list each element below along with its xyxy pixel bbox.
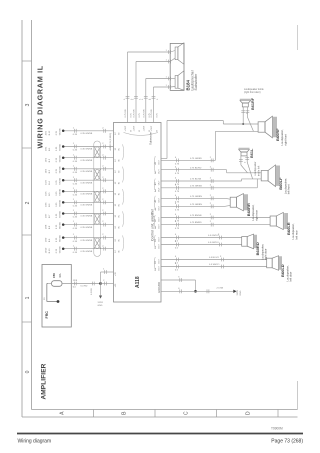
svg-text:B60LD: B60LD <box>280 264 285 277</box>
terminal 30 dot inside FRC <box>57 300 60 303</box>
svg-text:T9900M: T9900M <box>271 427 283 431</box>
svg-text:2: 2 <box>25 201 31 204</box>
svg-text:0.35 GN/SB: 0.35 GN/SB <box>81 149 93 151</box>
svg-text:+OUT: +OUT <box>143 125 145 131</box>
output wire LD+ <box>161 259 267 261</box>
connector ticks right row y=248.7 <box>103 247 105 251</box>
wire subwoofer lead 3 <box>146 78 171 80</box>
drawing frame left outer border <box>21 20 23 417</box>
svg-text:+OUT: +OUT <box>151 125 153 131</box>
svg-text:GN/SB: GN/SB <box>59 211 61 218</box>
svg-text:0.75 BN/RD: 0.75 BN/RD <box>190 222 202 224</box>
input wire row y=248.7 <box>63 248 113 250</box>
svg-text:A118: A118 <box>135 276 141 288</box>
drawing frame bottom inner border <box>32 409 298 411</box>
output wire RF- <box>161 159 215 161</box>
junction dot +30 <box>99 282 102 285</box>
loudspeaker B60LR <box>270 212 287 229</box>
svg-text:31/55: 31/55 <box>237 289 239 295</box>
splice dot row y=248.7 <box>62 247 64 250</box>
svg-text:0.75 BN/SB: 0.75 BN/SB <box>190 215 202 217</box>
B184 pin ticks <box>168 50 170 54</box>
connector ticks right row y=130.8 <box>103 129 105 133</box>
splice dot row y=130.8 <box>62 130 64 133</box>
svg-text:FRC: FRC <box>45 311 49 319</box>
input wire row y=130.8 <box>63 130 113 132</box>
svg-text:3: 3 <box>25 103 31 106</box>
svg-text:GND: GND <box>240 290 242 295</box>
svg-text:Loudspeaker treble: Loudspeaker treble <box>244 88 264 91</box>
pin group brackets right edge <box>154 156 155 172</box>
svg-text:0.35 GN/SB: 0.35 GN/SB <box>81 133 93 135</box>
connector ticks left row y=157.7 <box>73 156 75 160</box>
svg-text:1.0 RD: 1.0 RD <box>91 288 93 295</box>
splice dot row y=191.3 <box>62 190 64 193</box>
svg-text:left front: left front <box>287 184 291 194</box>
splice dot row y=237.6 <box>62 236 64 239</box>
svg-text:GN/SB: GN/SB <box>59 155 61 162</box>
connector ticks subwoofer lead 1 <box>126 95 130 97</box>
svg-text:31/91: 31/91 <box>98 302 104 304</box>
connector ticks left row y=146.5 <box>73 145 75 149</box>
connector ticks right row y=213.5 <box>103 212 105 216</box>
output wire RR+ <box>161 197 225 199</box>
splice dot row y=157.7 <box>62 156 64 159</box>
wire fuse feed inside FRC <box>47 283 48 285</box>
svg-text:left door: left door <box>289 272 293 282</box>
svg-text:0.35 GN/SB: 0.35 GN/SB <box>81 227 93 229</box>
input wire row y=224.6 <box>63 224 113 226</box>
svg-text:OUT: OUT <box>158 180 160 185</box>
B61RF stub wires <box>242 107 244 124</box>
svg-text:GN/SB: GN/SB <box>59 166 61 173</box>
svg-text:Control unit, amplifier: Control unit, amplifier <box>151 208 155 241</box>
svg-text:0.75 GR: 0.75 GR <box>125 109 127 118</box>
loudspeaker B184 driver 2 <box>175 71 184 90</box>
loudspeaker B60RF <box>258 116 277 138</box>
connector ticks left row y=248.7 <box>73 247 75 251</box>
connector ticks subwoofer lead 4 <box>152 95 156 97</box>
input wire row y=191.3 <box>63 190 113 192</box>
loudspeaker B60RR <box>230 194 247 211</box>
svg-text:B:12: B:12 <box>49 130 51 135</box>
splice dot row y=146.5 <box>62 145 64 148</box>
svg-text:0.5 GR/VO: 0.5 GR/VO <box>208 242 219 244</box>
svg-text:1: 1 <box>25 296 31 299</box>
wire F58 to amplifier +30 <box>62 283 101 285</box>
output wire RD- <box>161 244 242 246</box>
svg-text:B:10: B:10 <box>49 248 51 253</box>
svg-text:GN/SB: GN/SB <box>59 200 61 207</box>
svg-text:B60LR: B60LR <box>286 222 291 235</box>
svg-text:0.35 GN/SB: 0.35 GN/SB <box>81 160 93 162</box>
svg-text:0.75 GR/BN: 0.75 GR/BN <box>190 204 202 206</box>
connector ticks subwoofer lead 3 <box>144 95 148 97</box>
svg-text:OUT: OUT <box>158 187 160 192</box>
input wire row y=146.5 <box>63 146 113 148</box>
wire subwoofer lead 4 <box>154 86 171 88</box>
svg-text:30A: 30A <box>59 273 62 278</box>
svg-text:C: C <box>184 411 190 415</box>
svg-text:Subwoofer: Subwoofer <box>194 73 198 91</box>
svg-text:0: 0 <box>25 370 31 373</box>
B61RF stub ticks <box>241 110 245 112</box>
loudspeaker B184 box <box>170 43 184 90</box>
svg-text:+OUT: +OUT <box>134 125 136 131</box>
loudspeaker B60RD <box>242 234 257 249</box>
svg-text:0.75 GR: 0.75 GR <box>143 109 145 118</box>
grid tick marks left band <box>22 60 32 62</box>
svg-text:0.35 GN/SB: 0.35 GN/SB <box>81 205 93 207</box>
connector ticks left row y=237.6 <box>73 236 75 240</box>
connector ticks right row y=191.3 <box>103 189 105 193</box>
svg-text:AMPLIFIER: AMPLIFIER <box>40 363 47 399</box>
output wire LF- upper run <box>161 180 242 182</box>
svg-text:0.5 BL/VO: 0.5 BL/VO <box>209 257 219 259</box>
fuse F58 <box>52 281 63 287</box>
wire +30 branch upper pin <box>100 272 102 284</box>
svg-text:GN/SB: GN/SB <box>59 177 61 184</box>
tweeter B61L <box>239 148 250 156</box>
svg-text:left rear: left rear <box>294 230 298 239</box>
footer rule <box>17 433 303 435</box>
fuse box FRC outline <box>42 265 71 328</box>
wire subwoofer lead 2 <box>136 61 170 63</box>
ground junction dot <box>194 290 197 293</box>
svg-text:AUDIO IN (P-BUS): AUDIO IN (P-BUS) <box>109 133 112 151</box>
splice dot row y=180.2 <box>62 179 64 182</box>
svg-text:B60LF: B60LF <box>278 177 283 190</box>
connector ticks right row y=202.4 <box>103 201 105 205</box>
output wire RD+ <box>161 237 242 239</box>
ground wire upper <box>161 279 196 281</box>
ground terminal arrow <box>233 290 236 293</box>
svg-text:GN/SB: GN/SB <box>59 188 61 195</box>
svg-text:0.35 GN/SB: 0.35 GN/SB <box>81 216 93 218</box>
svg-text:treble left: treble left <box>257 165 260 176</box>
svg-text:B60RR: B60RR <box>246 203 251 216</box>
ground wire lower <box>161 290 233 292</box>
svg-text:F58: F58 <box>52 273 56 278</box>
svg-text:(right front door): (right front door) <box>244 91 261 94</box>
splice dot row y=224.6 <box>62 223 64 226</box>
svg-text:OUT: OUT <box>158 265 160 270</box>
svg-text:GN/SB: GN/SB <box>59 222 61 229</box>
svg-text:WIRING DIAGRAM IL: WIRING DIAGRAM IL <box>35 65 44 148</box>
svg-text:B60RD: B60RD <box>255 242 260 255</box>
connector ticks left row y=224.6 <box>73 223 75 227</box>
svg-text:OUT: OUT <box>158 243 160 248</box>
connector ticks right row y=146.5 <box>103 145 105 149</box>
svg-text:OUT: OUT <box>158 236 160 241</box>
svg-text:0.5 SB/VO: 0.5 SB/VO <box>209 264 220 266</box>
drawing frame left inner border <box>31 20 33 410</box>
svg-text:16/10: 16/10 <box>46 247 48 253</box>
loudspeaker B60LD <box>267 256 282 271</box>
output wire LF+ <box>161 169 227 171</box>
input wire row y=157.7 <box>63 157 113 159</box>
svg-text:OUT: OUT <box>158 205 160 210</box>
output wire LD- <box>161 266 267 268</box>
svg-text:0.35 GN/SB: 0.35 GN/SB <box>81 194 93 196</box>
connector ticks left row y=213.5 <box>73 212 75 216</box>
output wire RF+ (to B60RF via top run) <box>161 158 167 160</box>
connector ticks right row y=157.7 <box>103 156 105 160</box>
svg-text:GROUND: GROUND <box>158 282 161 293</box>
output wire LR- <box>161 224 270 226</box>
svg-text:OUT: OUT <box>158 159 160 164</box>
svg-text:0.35 GN/SB: 0.35 GN/SB <box>81 182 93 184</box>
splice dot row y=202.4 <box>62 201 64 204</box>
output wire RR- <box>161 205 225 207</box>
connector ticks right row y=237.6 <box>103 236 105 240</box>
input wire row y=213.5 <box>63 213 113 215</box>
twisted pair crossings <box>94 147 101 158</box>
drawing frame bottom outer border <box>22 416 298 418</box>
svg-text:0.35 GN/SB: 0.35 GN/SB <box>81 240 93 242</box>
connector ticks subwoofer lead 2 <box>134 95 138 97</box>
drawing frame right border fragments <box>297 25 299 50</box>
svg-text:0.75 BL/SB: 0.75 BL/SB <box>190 179 202 181</box>
svg-text:B60RF: B60RF <box>275 128 280 141</box>
wire subwoofer lead 1 <box>128 51 171 53</box>
svg-text:0.75 GN/RD: 0.75 GN/RD <box>190 158 202 160</box>
svg-text:Subwoofer: Subwoofer <box>149 132 153 145</box>
connector ticks left row y=130.8 <box>73 129 75 133</box>
loudspeaker B184 driver 1 <box>175 43 184 64</box>
connector ticks right row y=224.6 <box>103 223 105 227</box>
svg-text:GND: GND <box>98 305 103 307</box>
svg-text:GN/SB: GN/SB <box>59 128 61 135</box>
svg-text:0.75 GR: 0.75 GR <box>134 109 136 118</box>
control unit amplifier A118 outline <box>114 123 162 303</box>
output wire LF- lower run <box>161 187 257 189</box>
splice dot row y=213.5 <box>62 212 64 215</box>
svg-text:0.75 GN/BN: 0.75 GN/BN <box>190 196 202 198</box>
B61L stub wires <box>240 156 242 165</box>
svg-text:+OUT: +OUT <box>125 125 127 131</box>
svg-text:B61RF: B61RF <box>251 97 255 110</box>
svg-text:GN/SB: GN/SB <box>59 246 61 253</box>
svg-text:OUT: OUT <box>158 216 160 221</box>
svg-text:GN/SB: GN/SB <box>59 144 61 151</box>
wire +30 down stub <box>100 284 102 296</box>
svg-text:2.5 SB: 2.5 SB <box>217 288 224 290</box>
connector ticks left row y=191.3 <box>73 189 75 193</box>
svg-text:OUT: OUT <box>158 169 160 174</box>
svg-text:B61L: B61L <box>250 148 254 158</box>
svg-text:Wiring diagram: Wiring diagram <box>18 439 52 445</box>
input wire row y=168.8 <box>63 168 113 170</box>
wire +30 branch lower pin <box>101 283 114 285</box>
B184 pin stubs <box>170 51 175 53</box>
svg-text:0.75 BL/RD: 0.75 BL/RD <box>190 167 202 169</box>
svg-text:OUT: OUT <box>158 258 160 263</box>
pin group bracket under subwoofer top pins <box>124 133 159 136</box>
svg-text:right front: right front <box>283 134 287 146</box>
output wire LR+ <box>161 217 270 219</box>
connector ticks right row y=168.8 <box>103 167 105 171</box>
input wire row y=180.2 <box>63 179 113 181</box>
svg-text:6.0 RD: 6.0 RD <box>81 286 88 288</box>
B61L stub ticks <box>239 159 243 161</box>
svg-text:OUT: OUT <box>158 197 160 202</box>
svg-text:0.35 GN/SB: 0.35 GN/SB <box>81 171 93 173</box>
svg-text:right rear: right rear <box>254 210 258 221</box>
grid tick marks bottom band <box>93 410 95 418</box>
connector ticks left row y=180.2 <box>73 178 75 182</box>
svg-text:0.75 GR/SB: 0.75 GR/SB <box>190 185 202 187</box>
svg-text:OUT: OUT <box>158 224 160 229</box>
input wire row y=202.4 <box>63 201 113 203</box>
svg-text:GN/SB: GN/SB <box>59 235 61 242</box>
svg-text:Page 73 (268): Page 73 (268) <box>271 439 303 445</box>
tweeter B61RF <box>240 99 251 107</box>
loudspeaker B60LF <box>261 165 280 187</box>
svg-text:D: D <box>246 411 252 415</box>
connector ticks left row y=202.4 <box>73 201 75 205</box>
splice dot row y=168.8 <box>62 168 64 171</box>
input wire row y=237.6 <box>63 237 113 239</box>
svg-text:0.75 GR: 0.75 GR <box>151 109 153 118</box>
connector ticks left row y=168.8 <box>73 167 75 171</box>
connector ticks right row y=180.2 <box>103 178 105 182</box>
cable sheath (shielded twisted cable) <box>94 141 101 257</box>
pin group brackets left edge <box>123 144 124 160</box>
svg-text:0.35 GN/SB: 0.35 GN/SB <box>81 251 93 253</box>
